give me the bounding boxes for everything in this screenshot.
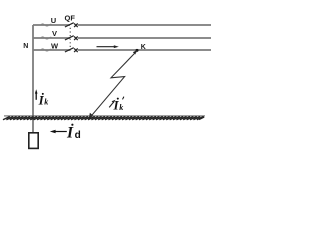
svg-text:W: W [51,41,59,50]
wire phase W [33,49,70,51]
breaker QF linkage (dashed) [69,28,71,51]
svg-text:U: U [51,16,56,25]
wire squiggle W [41,49,53,51]
current arrow I'k along bolt [109,100,115,108]
breaker QF pole W [65,48,78,52]
current arrow Id (earth current) [50,130,67,134]
label Id [66,124,81,142]
svg-text:k: k [119,103,123,112]
wire phase V [33,37,70,39]
svg-text:K: K [141,44,146,51]
current arrow on phase W [97,45,119,48]
wire phase U [33,24,70,26]
label Ik [38,92,49,107]
ground hatching [3,117,204,120]
ground (earth) line [4,115,205,117]
breaker QF pole V [65,36,78,40]
bolt arrowhead at ground [89,113,94,119]
lightning bolt fault path [90,51,137,118]
svg-text:N: N [23,43,28,50]
svg-text:V: V [52,29,57,38]
svg-text:d: d [75,130,81,141]
svg-text:k: k [44,98,48,107]
node K fault point [136,49,139,52]
wire squiggle V [41,37,53,39]
node N neutral bus (vertical) [32,25,34,133]
label I'k [113,97,124,113]
svg-text:QF: QF [65,14,76,23]
svg-text:I: I [66,125,74,142]
grounding electrode box [29,133,38,149]
current arrow Ik on neutral [35,89,38,100]
breaker QF pole U [65,23,78,27]
wire squiggle U [41,24,53,26]
